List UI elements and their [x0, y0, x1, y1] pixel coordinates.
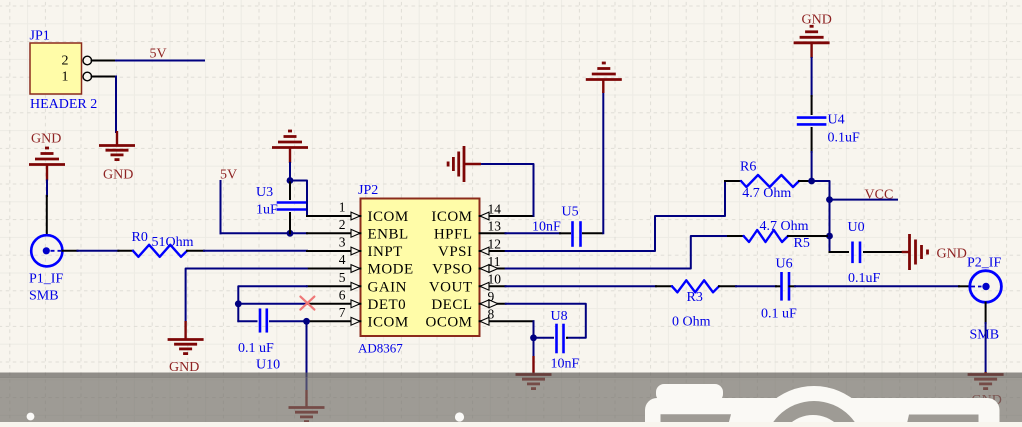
- svg-text:ICOM: ICOM: [368, 209, 409, 225]
- wire JP2 pin 6 DET0: [238, 303, 307, 305]
- junction 5V U3 bottom: [287, 230, 294, 237]
- svg-text:VPSO: VPSO: [432, 262, 472, 278]
- svg-text:U10: U10: [256, 358, 280, 373]
- svg-text:R6: R6: [740, 160, 756, 175]
- JP2 pin 6 DET0: [307, 303, 361, 305]
- ground rotated right of U0: [902, 251, 909, 253]
- svg-text:51Ohm: 51Ohm: [152, 235, 194, 250]
- JP2 pin 14 ICOM: [480, 215, 534, 217]
- watermark white dot left: [27, 413, 35, 421]
- wire JP1 pin 1 to ground: [115, 77, 117, 133]
- connector P1_IF top pin: [46, 196, 48, 234]
- capacitor U4 bottom pin: [811, 128, 813, 152]
- svg-text:ICOM: ICOM: [431, 209, 472, 225]
- JP2 pin 11 VPSO: [480, 268, 506, 270]
- svg-text:JP1: JP1: [30, 29, 50, 44]
- connector P1_IF center dot: [43, 247, 50, 254]
- wire U8 junction down to ground: [533, 338, 535, 357]
- svg-text:VPSI: VPSI: [438, 244, 473, 260]
- svg-text:R0: R0: [132, 230, 148, 245]
- capacitor U4 top pin: [811, 96, 813, 114]
- svg-text:9: 9: [488, 289, 495, 304]
- capacitor U3 top pin: [289, 181, 291, 200]
- resistor R6 left pin: [725, 180, 741, 182]
- JP2 pin 9 DECL: [480, 303, 506, 305]
- ground MODE: [168, 338, 204, 341]
- resistor R0 right pin: [187, 250, 204, 252]
- ground GND below JP1: [99, 144, 135, 147]
- junction R5 right: [826, 233, 833, 240]
- wire 5V to JP2 pin 2 ENBL: [221, 232, 308, 234]
- svg-text:ICOM: ICOM: [368, 315, 409, 331]
- JP2 pin 7 ICOM: [307, 320, 361, 322]
- resistor R5: [744, 230, 788, 242]
- wire U3 top to JP2 pin 1 ICOM: [290, 181, 307, 217]
- resistor R3 right pin: [719, 285, 736, 287]
- wire U6 to P2_IF: [795, 285, 959, 287]
- svg-text:DET0: DET0: [368, 297, 407, 313]
- JP2 pin 10 VOUT: [480, 285, 506, 287]
- svg-text:VOUT: VOUT: [429, 280, 473, 296]
- svg-text:5: 5: [339, 270, 346, 285]
- svg-text:10nF: 10nF: [551, 357, 580, 372]
- capacitor U5 left pin: [560, 232, 570, 234]
- capacitor U6 right pin: [790, 285, 796, 287]
- JP2 pin 12 VPSI: [480, 250, 506, 252]
- svg-text:2: 2: [339, 217, 346, 232]
- wire ground to U3 top: [289, 163, 291, 181]
- wire ground to U4: [811, 58, 813, 96]
- svg-text:JP2: JP2: [358, 183, 378, 198]
- svg-text:13: 13: [488, 219, 502, 234]
- resistor R5 right pin: [788, 235, 827, 237]
- watermark camera body: [645, 398, 1000, 427]
- wire JP2 pin 8 OCOM down: [533, 321, 535, 338]
- capacitor U5 right pin: [583, 232, 602, 234]
- junction U8: [530, 334, 537, 341]
- watermark camera right screen cutout: [901, 415, 979, 427]
- svg-text:4.7 Ohm: 4.7 Ohm: [742, 186, 791, 201]
- svg-text:14: 14: [488, 201, 502, 216]
- connector P2_IF dash: [971, 286, 982, 288]
- svg-text:8: 8: [488, 307, 495, 322]
- junction pin7: [303, 318, 310, 325]
- ground symbol above P1_IF: [29, 163, 65, 166]
- svg-text:P1_IF: P1_IF: [29, 272, 63, 287]
- ground below U8: [516, 373, 552, 376]
- svg-text:INPT: INPT: [368, 244, 403, 260]
- no-ERC marker X on pin 6: [300, 297, 314, 310]
- resistor R0 left pin: [118, 250, 133, 252]
- svg-text:7: 7: [339, 305, 346, 320]
- resistor R3: [672, 280, 719, 292]
- wire R0 to JP2 pin 3 INPT: [204, 250, 307, 252]
- svg-text:VCC: VCC: [865, 188, 894, 203]
- connector P2_IF left pin: [959, 285, 968, 287]
- svg-text:0.1uF: 0.1uF: [828, 131, 861, 146]
- wire pin7 junction down to ground: [306, 321, 308, 391]
- JP2 pin 13 HPFL: [480, 232, 506, 234]
- svg-text:R3: R3: [687, 290, 703, 305]
- svg-text:1: 1: [62, 70, 69, 85]
- svg-text:U8: U8: [551, 309, 568, 324]
- svg-text:U6: U6: [776, 257, 793, 272]
- power port GND stem top center: [602, 80, 604, 94]
- wire pin7 row left: [238, 320, 256, 322]
- connector P2_IF bottom pin: [985, 303, 987, 324]
- watermark camera lens inner white: [778, 415, 848, 427]
- svg-text:GND: GND: [802, 13, 832, 28]
- svg-text:AD8367: AD8367: [358, 341, 403, 356]
- ground bottom center: [289, 406, 325, 409]
- junction U4 R6: [808, 178, 815, 185]
- wire JP2 pin 10 VOUT to R3: [506, 285, 657, 287]
- wire 5V down: [220, 181, 222, 233]
- svg-text:P2_IF: P2_IF: [967, 256, 1001, 271]
- svg-text:6: 6: [339, 288, 346, 303]
- power port GND stem below JP1: [116, 131, 118, 145]
- watermark camera viewfinder bump: [656, 384, 723, 402]
- svg-text:U4: U4: [828, 113, 845, 128]
- svg-text:3: 3: [339, 235, 346, 250]
- wire VCC node: [812, 181, 830, 252]
- ground above U4: [794, 41, 830, 44]
- wire 5V from JP1 pin 2: [116, 60, 204, 62]
- JP2 pin 5 GAIN: [307, 285, 361, 287]
- watermark camera left screen cutout: [661, 414, 732, 427]
- connector P2_IF circle: [970, 271, 1002, 303]
- capacitor U8: [555, 325, 558, 352]
- svg-text:4.7 Ohm: 4.7 Ohm: [760, 219, 809, 234]
- watermark band top edge: [0, 373, 1022, 378]
- svg-text:R5: R5: [794, 236, 810, 251]
- svg-text:ENBL: ENBL: [368, 227, 409, 243]
- ground below P2_IF: [968, 373, 1004, 376]
- power port GND stem P2: [984, 372, 986, 374]
- capacitor U4: [798, 116, 825, 119]
- svg-text:0.1uF: 0.1uF: [848, 271, 881, 286]
- wire ground to P1_IF: [46, 181, 48, 197]
- svg-text:GAIN: GAIN: [368, 280, 408, 296]
- capacitor U6 left pin: [776, 285, 781, 287]
- connector P1_IF dash: [51, 250, 62, 252]
- svg-text:OCOM: OCOM: [425, 315, 472, 331]
- JP2 pin 1 ICOM: [307, 215, 361, 217]
- resistor R0: [133, 245, 187, 257]
- wire JP2 pin 14 to ground: [482, 164, 534, 216]
- svg-text:MODE: MODE: [368, 262, 414, 278]
- wire U5 up to ground: [602, 93, 604, 234]
- svg-text:4: 4: [339, 252, 346, 267]
- resistor R6 right pin: [799, 180, 808, 182]
- svg-text:10nF: 10nF: [532, 220, 561, 235]
- watermark band: [0, 377, 1022, 422]
- svg-text:SMB: SMB: [29, 289, 59, 304]
- connector P1_IF circle: [31, 235, 62, 266]
- svg-text:0 Ohm: 0 Ohm: [672, 315, 711, 330]
- ground top center: [586, 78, 622, 81]
- JP1 pin 1: [83, 72, 92, 81]
- JP1 pin 2: [83, 56, 92, 65]
- wire R3 to U6: [736, 285, 776, 287]
- svg-text:1: 1: [339, 200, 346, 215]
- wire JP2 pin 5 GAIN: [238, 286, 307, 321]
- wire JP2 pin 11 VPSO to R5: [506, 236, 729, 269]
- svg-text:U3: U3: [256, 185, 273, 200]
- capacitor U6: [780, 273, 783, 299]
- wire junction to U8: [534, 337, 554, 339]
- capacitor U3 bottom pin: [289, 213, 291, 233]
- svg-text:0.1 uF: 0.1 uF: [238, 341, 274, 356]
- junction VCC: [826, 196, 833, 203]
- svg-text:GND: GND: [937, 247, 967, 262]
- svg-text:11: 11: [488, 254, 501, 269]
- connector P1_IF right pin: [62, 250, 77, 252]
- wire VCC label stub: [830, 199, 898, 201]
- svg-text:DECL: DECL: [431, 297, 472, 313]
- capacitor U10: [259, 310, 262, 332]
- JP2 pin 4 MODE: [307, 268, 361, 270]
- wire JP2 pin 12 VPSI to R6: [506, 181, 728, 251]
- junction pin6: [235, 300, 242, 307]
- ground rotated left pin14: [463, 146, 466, 182]
- resistor R6: [741, 175, 799, 187]
- svg-text:SMB: SMB: [970, 328, 1000, 343]
- connector JP1 body: [30, 43, 82, 94]
- wire JP2 pin 9 DECL down: [506, 304, 586, 338]
- svg-text:HEADER 2: HEADER 2: [30, 97, 97, 112]
- power port GND stem MODE: [184, 321, 186, 339]
- capacitor U0: [851, 243, 854, 262]
- resistor R3 left pin: [656, 285, 672, 287]
- junction U3 top: [287, 177, 294, 184]
- power port GND stem above U3: [289, 148, 291, 164]
- svg-text:5V: 5V: [150, 47, 167, 62]
- watermark camera lens outer: [749, 386, 879, 427]
- svg-text:U5: U5: [562, 205, 579, 220]
- power port GND stem U8: [532, 356, 534, 374]
- watermark camera lens disc cutout: [764, 401, 864, 427]
- svg-text:1uF: 1uF: [256, 203, 278, 218]
- wire pin13 to U5: [506, 232, 561, 234]
- resistor R5 left pin: [728, 235, 744, 237]
- capacitor U5: [571, 223, 574, 246]
- capacitor U0 left pin: [830, 251, 849, 253]
- svg-text:HPFL: HPFL: [434, 227, 473, 243]
- svg-text:U0: U0: [848, 220, 865, 235]
- JP2 pin 2 ENBL: [307, 232, 361, 234]
- capacitor U0 right pin: [864, 251, 902, 253]
- svg-text:0.1 uF: 0.1 uF: [761, 307, 797, 322]
- wire U4 to VCC node: [811, 152, 813, 181]
- power port GND stem bottom: [305, 390, 307, 407]
- power port GND stem above U4: [810, 43, 812, 58]
- wire P2_IF to ground: [985, 323, 987, 373]
- wire JP2 pin 4 MODE to ground: [186, 269, 307, 323]
- svg-text:2: 2: [62, 54, 69, 69]
- svg-text:5V: 5V: [220, 168, 237, 183]
- wire P1_IF to R0: [78, 250, 119, 252]
- JP2 pin 8 OCOM: [480, 320, 534, 322]
- IC JP2 body: [361, 199, 480, 337]
- watermark white dot middle: [455, 412, 464, 421]
- ground symbol above U3: [272, 146, 308, 149]
- wire U10 to junction: [270, 320, 307, 322]
- svg-text:12: 12: [488, 236, 502, 251]
- svg-text:10: 10: [488, 272, 502, 287]
- svg-text:GND: GND: [103, 168, 133, 183]
- power port GND stem above P1_IF: [46, 165, 48, 181]
- JP2 pin 3 INPT: [307, 250, 361, 252]
- connector P2_IF center dot: [982, 283, 989, 290]
- capacitor U3: [278, 201, 305, 204]
- capacitor U8 right pin: [566, 337, 568, 339]
- svg-text:GND: GND: [31, 132, 61, 147]
